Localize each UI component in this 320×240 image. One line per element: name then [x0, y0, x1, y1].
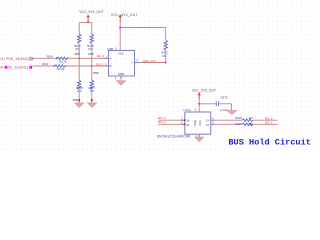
- wire EN_1 to U71A: [158, 123, 181, 125]
- junction dot power branch 2: [198, 103, 200, 105]
- label R605 value: [248, 116, 253, 120]
- pin stub U6B GND: [120, 76, 122, 80]
- svg-text:VCC: VCC: [198, 120, 202, 126]
- highlight square on label: [5, 66, 8, 69]
- svg-text:U6B: U6B: [107, 47, 113, 51]
- svg-text:2Y: 2Y: [206, 123, 209, 127]
- pin number 6 (U71A 1Y): [212, 117, 214, 120]
- svg-text:VCC_3V3_OUT: VCC_3V3_OUT: [79, 10, 104, 14]
- svg-text:2A: 2A: [186, 123, 189, 127]
- label R619 value: [87, 44, 94, 51]
- label R617 value: [89, 86, 96, 93]
- pin stub U71A 2A: [181, 123, 185, 125]
- label R622 value: [161, 51, 168, 58]
- svg-text:C876: C876: [220, 96, 228, 100]
- wire R610 to EN_1: [253, 123, 278, 125]
- svg-text:VCC: VCC: [118, 52, 124, 56]
- label C876: [220, 96, 228, 100]
- wire EN_2 row segment 2: [68, 57, 104, 59]
- highlight square at connector EN1: [29, 66, 32, 69]
- ground C876: [227, 110, 238, 114]
- resistor R610: [242, 123, 253, 126]
- resistor R622 (output pull-up): [164, 40, 167, 51]
- off-page label PD6_22(EN1): [0, 65, 28, 69]
- ground left pull-down: [74, 103, 84, 108]
- resistor R624: [57, 57, 68, 60]
- pin stub U6B Y: [135, 62, 140, 64]
- pin label 2Y: [206, 123, 209, 127]
- pin stub U71A GND: [198, 134, 200, 137]
- grid dots: [0, 0, 320, 152]
- resistor R621: [55, 65, 66, 68]
- pin number 3 (U6B GND): [115, 76, 117, 80]
- pin stub U71A 1A: [181, 119, 185, 121]
- svg-text:DNP: DNP: [73, 98, 79, 102]
- wire EN_2 to U71A: [158, 119, 181, 121]
- pin blob left ground: [78, 99, 80, 101]
- wire power to U71A pin5: [198, 99, 200, 112]
- label R610: [236, 122, 243, 126]
- wire AND_OUT: [139, 62, 165, 64]
- svg-text:VCC_3V3_OUT: VCC_3V3_OUT: [111, 13, 138, 17]
- wire power split bar: [79, 22, 92, 24]
- label GND inside U6B: [118, 72, 124, 76]
- wire R620 to EN_2 row: [78, 44, 80, 59]
- svg-text:D6_22(EN1): D6_22(EN1): [8, 65, 29, 69]
- svg-text:Y: Y: [131, 61, 133, 65]
- label R621 value: [57, 67, 65, 71]
- designator U71A: [183, 108, 191, 112]
- pin number 4 (U6B Y): [136, 58, 138, 62]
- off-page label PD5_18(EN2): [0, 57, 29, 61]
- buffer U71A box: [185, 112, 211, 134]
- pin label 2A: [186, 123, 189, 127]
- pin number 3 (U71A 2A): [181, 122, 183, 125]
- pin end dot 2A: [184, 123, 186, 125]
- wire R622 top: [165, 28, 167, 41]
- junction dot AND_OUT / R622: [165, 61, 167, 63]
- svg-text:B: B: [110, 64, 112, 68]
- svg-text:AND_OUT: AND_OUT: [143, 59, 157, 63]
- resistor R619 (DNP pull-up): [90, 34, 93, 44]
- title BUS Hold Circuit: [228, 138, 311, 148]
- label R621: [42, 62, 49, 66]
- svg-text:(04) PD5_18(EN2): (04) PD5_18(EN2): [0, 57, 29, 61]
- off-page connector chevron EN2: [29, 57, 33, 60]
- svg-text:R621: R621: [42, 62, 49, 66]
- resistor R618 (DNP pull-down): [78, 80, 81, 90]
- svg-text:EN_2: EN_2: [97, 54, 105, 58]
- svg-text:SN74LVC2G34DCKR: SN74LVC2G34DCKR: [157, 134, 191, 138]
- wire R618 to ground: [78, 90, 80, 103]
- label GND inside U71A rotated: [193, 120, 197, 126]
- power symbol VCC_3V3_OUT (U71A): [192, 88, 217, 99]
- power symbol VCC_3V3_OUT (pull-up pair): [79, 10, 104, 22]
- svg-text:BUS Hold Circuit: BUS Hold Circuit: [228, 138, 311, 148]
- capacitor C876: [216, 101, 218, 106]
- pin number 2 (U6B B): [105, 62, 107, 66]
- label R605: [236, 116, 243, 120]
- wire EN_1 row segment 2: [66, 65, 104, 67]
- svg-text:1A: 1A: [186, 118, 189, 122]
- pin label 1Y: [206, 118, 209, 122]
- part number SN74LVC2G34DCKR: [157, 134, 191, 138]
- pin number 4 (U71A 2Y): [212, 122, 214, 125]
- svg-text:EN_1: EN_1: [265, 121, 273, 125]
- net label EN_2: [97, 54, 105, 58]
- net label EN_1 right: [265, 121, 273, 125]
- svg-text:R610: R610: [236, 122, 243, 126]
- pin dots R624: [56, 58, 69, 60]
- net label AND_OUT: [143, 59, 157, 63]
- svg-text:GND: GND: [118, 72, 124, 76]
- svg-text:DNP: DNP: [75, 52, 81, 56]
- pin stub U71A 1Y: [211, 119, 215, 121]
- wire left pull-up top: [78, 23, 80, 34]
- pin number 5 (U71A VCC): [195, 109, 197, 112]
- net label EN_1: [96, 62, 104, 66]
- pin stub U71A 2Y: [211, 123, 215, 125]
- svg-text:GND: GND: [193, 120, 197, 126]
- wire U71A 2Y out: [215, 123, 242, 125]
- wire R619 to EN_1 row: [91, 44, 93, 67]
- label VCC inside U71A rotated: [198, 120, 202, 126]
- junction dot EN_2 / R620: [78, 57, 80, 59]
- svg-text:56.2K: 56.2K: [59, 59, 67, 63]
- label R624: [47, 54, 54, 58]
- label DNP R617: [93, 71, 99, 75]
- wire U71A 1Y out: [215, 119, 242, 121]
- wire power branch to R622: [120, 27, 166, 29]
- wire left pull-down top: [78, 58, 80, 80]
- label R610 value: [248, 122, 253, 126]
- svg-text:R605: R605: [236, 116, 243, 120]
- pin blob right ground: [91, 99, 93, 101]
- pin dots R621: [54, 65, 67, 67]
- label DNP R619: [89, 52, 95, 56]
- pin end dot 1A: [184, 119, 186, 121]
- resistor R620 (DNP pull-up): [78, 34, 81, 44]
- svg-text:1Y: 1Y: [206, 118, 209, 122]
- pin stub U6B B: [104, 65, 109, 67]
- label R620 value: [74, 44, 81, 51]
- junction dot at power split: [87, 21, 89, 23]
- pin label 1A: [186, 118, 189, 122]
- wire power to U6B pin5: [119, 23, 121, 51]
- svg-text:R624: R624: [47, 54, 54, 58]
- pin label A: [110, 57, 112, 61]
- power symbol VCC_3V3_OUT (U6B): [111, 13, 138, 23]
- svg-text:A: A: [110, 57, 112, 61]
- wire C876 to ground: [219, 104, 232, 111]
- pin number 5 (U6B VCC): [115, 47, 117, 51]
- wire right pull-down top: [91, 66, 93, 80]
- wire EN_2 row segment 1: [34, 57, 57, 59]
- pin label Y: [131, 61, 133, 65]
- op-amp/gate U6B box: [109, 51, 135, 77]
- ground U71A: [194, 137, 204, 142]
- pin label B: [110, 64, 112, 68]
- label VCC inside U6B: [118, 52, 124, 56]
- label R618 value: [76, 86, 83, 93]
- label DNP R620: [75, 52, 81, 56]
- wire R622 bottom: [165, 51, 167, 63]
- svg-text:VCC_3V3_OUT: VCC_3V3_OUT: [192, 88, 217, 92]
- pin number 1 (U6B A): [105, 55, 107, 59]
- svg-text:EN_1: EN_1: [158, 120, 166, 124]
- svg-text:U71A: U71A: [183, 108, 191, 112]
- svg-text:EN_1: EN_1: [96, 62, 104, 66]
- wire right pull-up top: [91, 23, 93, 34]
- svg-text:10K: 10K: [248, 116, 253, 120]
- label C876 value: [221, 108, 228, 112]
- ground U6B: [116, 81, 126, 86]
- wire EN_1 row segment 1: [33, 65, 54, 67]
- wire R617 to ground: [91, 90, 93, 103]
- svg-text:10K: 10K: [248, 122, 253, 126]
- pin number 1 (U71A 1A): [181, 117, 183, 120]
- wire power branch to C876: [199, 103, 216, 105]
- wire R605 to EN_2: [253, 119, 278, 121]
- svg-text:0.1uF: 0.1uF: [221, 108, 228, 112]
- svg-text:10K: 10K: [162, 54, 167, 58]
- pin number 2 (U71A GND): [196, 136, 198, 139]
- net label EN_2 left: [158, 116, 166, 120]
- svg-text:(04: (04: [0, 65, 3, 69]
- resistor R617 (DNP pull-down): [90, 80, 93, 90]
- svg-text:10K: 10K: [88, 47, 93, 51]
- label DNP R618: [73, 98, 79, 102]
- net label EN_1 left: [158, 120, 166, 124]
- net label EN_2 right: [265, 116, 273, 120]
- label R624 value: [59, 59, 67, 63]
- resistor R605: [242, 119, 253, 122]
- junction dot EN_1 / R619: [91, 65, 93, 67]
- designator U6B: [107, 47, 113, 51]
- svg-text:56.2K: 56.2K: [57, 67, 65, 71]
- ground right pull-down: [87, 103, 97, 108]
- svg-text:DNP: DNP: [93, 71, 99, 75]
- pin stub U6B A: [104, 57, 109, 59]
- junction dot power branch: [119, 26, 121, 28]
